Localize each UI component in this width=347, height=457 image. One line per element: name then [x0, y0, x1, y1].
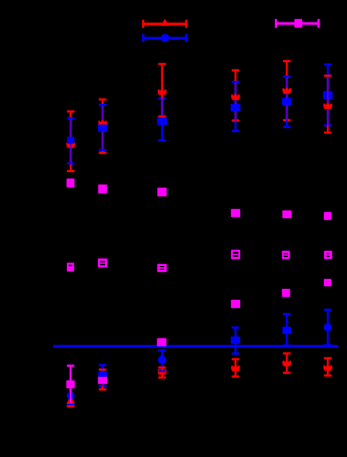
col4 bottom red errorbar — [232, 358, 239, 377]
col2 bottom red errorbar caps — [99, 369, 106, 391]
col5 bottom red triangle marker — [283, 360, 291, 367]
col1 bottom magenta square marker — [67, 381, 75, 389]
col6 top blue errorbar — [324, 64, 331, 127]
col1 top red errorbar — [67, 111, 74, 173]
col5 bottom blue errorbar — [283, 313, 290, 346]
col6 top red errorbar — [324, 75, 331, 134]
col6 top overlapping bar segment — [327, 76, 329, 126]
col4 magenta square row3 — [231, 300, 240, 308]
col4 top red triangle marker — [231, 93, 239, 100]
col2 bottom overlapping bar segment — [102, 370, 104, 387]
col6 magenta square row3 — [324, 279, 331, 286]
col4 bottom red triangle marker — [231, 364, 239, 371]
col4 magenta slotted square row2 — [231, 250, 240, 259]
col3 top red triangle marker — [158, 88, 166, 95]
col4 top blue errorbar caps — [232, 81, 239, 132]
col4 magenta square row1 — [231, 209, 240, 217]
col4 top blue square marker — [231, 104, 240, 111]
col2 top blue square marker — [98, 125, 107, 132]
col3 top blue square marker — [157, 117, 167, 125]
blue horizontal zero line — [53, 345, 338, 347]
col2 top red errorbar — [99, 99, 106, 154]
col5 bottom blue square marker — [283, 327, 292, 334]
col1 top red bar lower segment — [70, 164, 72, 172]
col3 bottom red triangle marker — [158, 368, 166, 375]
col2 bottom blue square marker — [98, 372, 107, 379]
col1 top overlapping bar segment — [70, 118, 72, 163]
col6 top red triangle marker — [324, 102, 332, 109]
col5 top overlapping bar segment — [286, 77, 288, 121]
col3 bottom blue errorbar — [158, 350, 165, 372]
col2 top red triangle marker — [99, 120, 107, 127]
col3 magenta slotted square row2 — [157, 264, 166, 272]
col5 magenta square row1 — [283, 211, 292, 218]
col1 bottom magenta line through marker — [70, 387, 71, 404]
col3 bottom blue circle marker — [158, 356, 166, 364]
col3 top blue errorbar — [158, 98, 165, 142]
col2 magenta square row1 — [98, 185, 107, 194]
col1 bottom magenta errorbar — [67, 365, 74, 404]
col5 top red triangle marker — [283, 87, 291, 94]
col1 magenta slotted square row2 — [67, 263, 74, 271]
col6 bottom red triangle marker — [324, 364, 332, 371]
col1 magenta square row1 — [67, 179, 75, 188]
col3 bottom blue lower cap — [158, 370, 165, 372]
col2 top blue errorbar caps — [99, 104, 106, 151]
col6 top blue square marker — [323, 91, 332, 99]
col3 bottom red errorbar — [158, 367, 165, 379]
col4 top blue bar lower segment — [235, 121, 237, 132]
col2 top red bar lower segment — [102, 150, 104, 153]
col1 top blue errorbar — [67, 118, 74, 165]
col5 bottom red errorbar — [283, 353, 290, 374]
col6 magenta slotted square row2 — [324, 251, 332, 259]
col1 bottom red triangle marker — [67, 397, 74, 408]
col6 magenta square row1 — [324, 212, 331, 220]
col6 bottom blue errorbar — [324, 309, 331, 346]
col1 bottom blue circle marker — [67, 392, 74, 405]
col4 top overlapping bar segment — [235, 82, 237, 121]
col2 bottom blue errorbar — [99, 364, 106, 387]
legend blue errorbar with circle marker — [142, 34, 187, 42]
col1 top blue square marker — [67, 137, 74, 144]
col5 top blue bar lower segment — [286, 120, 288, 127]
col3 magenta square row1 — [158, 188, 167, 196]
col3 top overlapping bar segment — [161, 99, 163, 116]
col3 top red errorbar — [158, 63, 165, 117]
col5 top blue errorbar caps — [283, 76, 290, 128]
legend red errorbar with triangle marker — [142, 19, 187, 28]
col6 bottom red errorbar — [324, 357, 331, 376]
legend magenta errorbar with square marker — [275, 19, 320, 28]
col5 magenta slotted square row2 — [282, 251, 290, 259]
col5 magenta square row3 — [282, 289, 290, 297]
col4 bottom blue errorbar — [232, 327, 239, 355]
col5 top blue square marker — [282, 98, 291, 106]
col2 bottom magenta square marker — [98, 377, 107, 384]
col1 top red triangle marker — [67, 141, 75, 148]
col2 magenta slotted square row2 — [98, 259, 107, 268]
col2 top overlapping bar segment — [102, 105, 104, 150]
col4 top red errorbar — [232, 69, 239, 121]
col5 top red errorbar — [283, 60, 290, 121]
col4 bottom blue square marker — [231, 337, 240, 344]
col6 bottom blue circle marker — [324, 324, 332, 332]
col3 magenta square on zero line — [157, 338, 166, 346]
